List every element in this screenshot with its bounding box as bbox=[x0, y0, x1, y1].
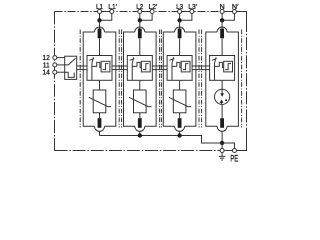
node junction below N bbox=[220, 19, 223, 22]
svg-text:N: N bbox=[220, 4, 225, 11]
linkage bus upper between module L3 and N bbox=[192, 65, 210, 67]
ground symbol bbox=[219, 153, 226, 160]
bottom spark gap electrode bar N bbox=[220, 118, 224, 128]
node bus junction L3 bbox=[178, 134, 181, 137]
module enclosure dash-dot left L3 bbox=[160, 30, 162, 128]
svg-text:L2′: L2′ bbox=[149, 4, 158, 11]
thermal disconnector switch inside box L3 bbox=[169, 57, 174, 80]
terminal PE&#8242; bbox=[233, 149, 237, 153]
top spark gap arc L3 bbox=[175, 27, 185, 32]
wire PE junction to PE terminal bbox=[221, 143, 223, 149]
bottom spark gap arc L2 bbox=[135, 126, 145, 131]
top spark gap electrode bar N bbox=[220, 29, 224, 39]
terminal L1&#8242; bbox=[110, 10, 114, 14]
pulse glyph inside status box N bbox=[225, 64, 231, 70]
wire varistor to bottom spark gap L2 bbox=[139, 113, 141, 118]
status indicator box inside box L1 bbox=[101, 61, 110, 72]
varistor MOV L1 bbox=[89, 90, 111, 113]
step waveform link inside box N bbox=[215, 62, 224, 67]
wire varistor to bottom spark gap L3 bbox=[179, 113, 181, 118]
wire gas discharge tube to bottom spark gap N bbox=[221, 104, 223, 118]
wire junction to top spark gap electrode bbox=[139, 20, 141, 29]
label PE bbox=[230, 153, 238, 163]
label L1 bbox=[96, 4, 103, 11]
terminal N bbox=[220, 10, 224, 14]
module enclosure dash-dot right L1 bbox=[118, 30, 120, 128]
svg-text:L1: L1 bbox=[96, 4, 103, 11]
bottom spark gap electrode bar L2 bbox=[138, 118, 142, 128]
svg-text:L2: L2 bbox=[136, 4, 143, 11]
wire FM box to module linkage (upper) bbox=[77, 65, 87, 67]
module enclosure dash-dot right L3 bbox=[198, 30, 200, 128]
varistor MOV L3 bbox=[169, 90, 191, 113]
module enclosure dash-dot right N bbox=[241, 30, 243, 128]
top spark gap electrode bar L2 bbox=[138, 29, 142, 39]
gas discharge tube (N-PE spark gap) F1 bbox=[215, 89, 230, 104]
terminal L1 bbox=[98, 10, 102, 14]
bottom spark gap arc L1 bbox=[95, 126, 105, 131]
svg-text:12: 12 bbox=[42, 55, 49, 62]
module enclosure dash-dot right L2 bbox=[159, 30, 161, 128]
label L3&#8242; bbox=[188, 4, 197, 11]
svg-text:PE: PE bbox=[230, 153, 238, 163]
wire L2&#8242; terminal down and to junction bbox=[141, 14, 152, 21]
remote signalling contact FM box bbox=[65, 56, 77, 79]
wire terminal 11 to FM box bbox=[57, 64, 65, 66]
wire bottom spark gap to PE bus L1 bbox=[99, 131, 101, 135]
svg-text:14: 14 bbox=[42, 70, 49, 77]
pulse glyph inside status box L2 bbox=[143, 64, 149, 70]
terminal PE (earth side) bbox=[220, 149, 224, 153]
wire spark gap to monitoring box L1 bbox=[99, 38, 101, 55]
pulse glyph inside status box L3 bbox=[183, 64, 189, 70]
wire L3 terminal to junction bbox=[179, 14, 181, 21]
linkage bus lower between module L1 and L2 bbox=[112, 69, 127, 71]
status indicator box inside box L2 bbox=[141, 61, 150, 72]
label N&#8242; bbox=[232, 4, 239, 11]
wire terminal 14 to FM box bbox=[57, 71, 65, 73]
top spark gap arc N bbox=[217, 27, 227, 32]
wire L1 terminal to junction bbox=[99, 14, 101, 21]
node bus junction L2 bbox=[138, 134, 141, 137]
label L2&#8242; bbox=[149, 4, 158, 11]
wire spark gap to monitoring box N bbox=[221, 38, 223, 55]
node junction below L2 bbox=[138, 19, 141, 22]
wire varistor to bottom spark gap L1 bbox=[99, 113, 101, 118]
wire monitoring box to varistor L2 bbox=[139, 80, 141, 90]
wire bottom spark gap to PE junction N bbox=[221, 131, 223, 143]
linkage bus lower between module L2 and L3 bbox=[152, 69, 167, 71]
wire monitoring box to varistor L3 bbox=[179, 80, 181, 90]
label L1&#8242; bbox=[108, 4, 117, 11]
label 11 bbox=[43, 62, 50, 69]
step waveform link inside box L1 bbox=[92, 62, 101, 67]
label N bbox=[220, 4, 225, 11]
monitoring/disconnector box L1 bbox=[87, 56, 112, 81]
wire between PE terminals bbox=[224, 150, 232, 152]
node PE junction bbox=[220, 141, 223, 144]
PE bus wire from module L1 to step bbox=[100, 136, 223, 144]
changeover contact blade inside FM box bbox=[65, 58, 76, 77]
svg-text:N′: N′ bbox=[232, 4, 239, 11]
bottom spark gap electrode bar L3 bbox=[178, 118, 182, 128]
wire terminal 12 to FM box bbox=[57, 57, 65, 59]
wire L3&#8242; terminal down and to junction bbox=[181, 14, 192, 21]
svg-text:L3: L3 bbox=[176, 4, 183, 11]
wire monitoring box to varistor L1 bbox=[99, 80, 101, 90]
thermal disconnector switch inside box N bbox=[212, 57, 217, 80]
module box L1 (solid outline with spark-gap arcs) bbox=[83, 32, 116, 126]
top spark gap arc L1 bbox=[95, 27, 105, 32]
svg-text:L3′: L3′ bbox=[188, 4, 197, 11]
wire monitoring box to gas discharge tube N bbox=[221, 80, 223, 89]
terminal 14 bbox=[53, 70, 57, 74]
thermal disconnector switch inside box L1 bbox=[89, 57, 94, 80]
top spark gap electrode bar L1 bbox=[98, 29, 102, 39]
wire junction to top spark gap electrode bbox=[179, 20, 181, 29]
status indicator box inside box N bbox=[224, 61, 233, 72]
wire N&#8242; terminal to right boundary corner bbox=[237, 12, 247, 20]
wire spark gap to monitoring box L2 bbox=[139, 38, 141, 55]
terminal 12 bbox=[53, 56, 57, 60]
module enclosure dash-dot left L1 bbox=[79, 30, 81, 128]
linkage bus upper between module L1 and L2 bbox=[112, 65, 127, 67]
monitoring/disconnector box L3 bbox=[167, 56, 192, 81]
device enclosure boundary, left edge bbox=[54, 12, 56, 151]
wire PE junction to PE&#8242; terminal bbox=[222, 143, 234, 149]
wire N&#8242; terminal down and to junction bbox=[223, 14, 234, 21]
terminal L3 bbox=[178, 10, 182, 14]
node junction below L3 bbox=[178, 19, 181, 22]
device enclosure boundary, bottom edge bbox=[55, 150, 221, 152]
linkage bus upper between module L2 and L3 bbox=[152, 65, 167, 67]
linkage bus lower between module L3 and N bbox=[192, 69, 210, 71]
wire terminal pair L2-L2&#8242; bbox=[142, 11, 150, 13]
wire spark gap to monitoring box L3 bbox=[179, 38, 181, 55]
module enclosure dash-dot left N bbox=[201, 30, 203, 128]
step waveform link inside box L3 bbox=[172, 62, 181, 67]
terminal 11 bbox=[53, 63, 57, 67]
label L2 bbox=[136, 4, 143, 11]
thermal disconnector switch inside box L2 bbox=[130, 57, 135, 80]
module box L2 (solid outline with spark-gap arcs) bbox=[124, 32, 157, 126]
wire terminal pair L1-L1&#8242; bbox=[102, 11, 110, 13]
monitoring/disconnector box L2 bbox=[127, 56, 152, 81]
label L3 bbox=[176, 4, 183, 11]
device enclosure boundary (dash-dot), top edge bbox=[55, 11, 237, 13]
varistor MOV L2 bbox=[129, 90, 151, 113]
wire terminal pair L3-L3&#8242; bbox=[182, 11, 190, 13]
label 14 bbox=[42, 70, 49, 77]
terminal L2 bbox=[138, 10, 142, 14]
monitoring/disconnector box N bbox=[210, 56, 235, 81]
module enclosure dash-dot left L2 bbox=[121, 30, 123, 128]
wire bottom spark gap to PE bus L3 bbox=[179, 131, 181, 135]
status indicator box inside box L3 bbox=[181, 61, 190, 72]
pulse glyph inside status box L1 bbox=[103, 64, 109, 70]
bottom spark gap arc L3 bbox=[175, 126, 185, 131]
wire bottom spark gap to PE bus L2 bbox=[139, 131, 141, 135]
svg-text:11: 11 bbox=[43, 62, 50, 69]
label 12 bbox=[42, 55, 49, 62]
wire PE&#8242; terminal to boundary corner bbox=[237, 140, 247, 151]
wire L2 terminal to junction bbox=[139, 14, 141, 21]
bottom spark gap electrode bar L1 bbox=[98, 118, 102, 128]
top spark gap arc L2 bbox=[135, 27, 145, 32]
svg-text:L1′: L1′ bbox=[108, 4, 117, 11]
bottom spark gap arc N bbox=[217, 126, 227, 131]
top spark gap electrode bar L3 bbox=[178, 29, 182, 39]
wire junction to top spark gap electrode bbox=[99, 20, 101, 29]
module box N (solid outline with spark-gap arcs) bbox=[206, 32, 239, 126]
wire FM box to module linkage (lower) bbox=[77, 69, 87, 71]
terminal L2&#8242; bbox=[150, 10, 154, 14]
wire N terminal to junction bbox=[221, 14, 223, 21]
terminal N&#8242; bbox=[232, 10, 236, 14]
wire terminal pair N-N&#8242; bbox=[224, 11, 232, 13]
wire junction to top spark gap electrode bbox=[221, 20, 223, 29]
device enclosure boundary, right edge bbox=[246, 19, 248, 140]
terminal L3&#8242; bbox=[190, 10, 194, 14]
module box L3 (solid outline with spark-gap arcs) bbox=[163, 32, 196, 126]
node junction below L1 bbox=[98, 19, 101, 22]
step waveform link inside box L2 bbox=[132, 62, 141, 67]
wire L1&#8242; terminal down and to junction bbox=[101, 14, 112, 21]
